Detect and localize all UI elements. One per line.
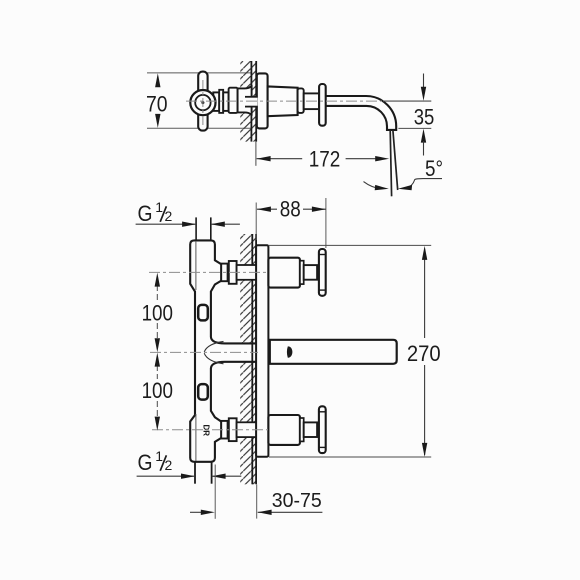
- svg-text:30-75: 30-75: [272, 489, 322, 512]
- svg-text:100: 100: [142, 300, 173, 325]
- handle hub outer circle: [190, 90, 215, 115]
- valve stem ring A (top view): [213, 92, 219, 111]
- wall hatch (top view): [240, 61, 256, 142]
- bottom valve trim sleeve: [268, 415, 300, 445]
- top valve ring B: [229, 261, 237, 284]
- bottom handle bar: [319, 406, 326, 453]
- bottom valve stem: [304, 422, 317, 437]
- svg-text:172: 172: [309, 147, 341, 172]
- svg-text:5°: 5°: [425, 156, 443, 181]
- top valve taper ring: [300, 261, 304, 284]
- svg-text:1: 1: [155, 199, 163, 215]
- dimension 100 upper: [156, 285, 158, 301]
- dimension 35 upper stem+arrow: [423, 74, 425, 89]
- spout aerator mark: [287, 346, 293, 357]
- spout neck: [304, 93, 319, 109]
- dimension 30-75 extension lines: [214, 465, 216, 519]
- G 1/2 bottom dimension line: [137, 475, 195, 477]
- top valve through-wall pipe: [237, 265, 258, 280]
- bottom valve ring A: [221, 421, 227, 439]
- spout front view: [270, 340, 397, 364]
- cross handle bar (top view): [198, 72, 207, 131]
- G 1/2 top dimension line: [136, 223, 196, 225]
- valve stem through-wall sleeve (top view): [245, 97, 258, 107]
- upper mounting slot: [198, 305, 208, 321]
- svg-text:100: 100: [142, 378, 173, 403]
- wall face line 2 (bottom view): [255, 234, 257, 484]
- top handle bar: [319, 249, 326, 296]
- wall face lines (top view): [250, 61, 252, 142]
- svg-text:88: 88: [280, 196, 301, 221]
- dimension 172 line and arrows: [257, 158, 303, 160]
- svg-text:35: 35: [414, 104, 435, 129]
- dimension 270 line and arrows: [424, 249, 426, 339]
- spout tube and elbow: [319, 96, 396, 130]
- dimension 70 extension lines: [147, 73, 251, 128]
- dimension 35 extension line: [398, 127, 431, 129]
- valve stem trumpet flange (top view): [238, 86, 252, 114]
- top valve trim sleeve: [268, 258, 300, 288]
- G 1/2 top stub extension lines: [195, 217, 197, 240]
- dimension 270 extension lines: [268, 244, 431, 246]
- svg-text:270: 270: [407, 341, 441, 366]
- spout body cone: [268, 86, 298, 116]
- top valve ring A: [221, 264, 227, 282]
- 5 degree arc right segment and leader: [406, 179, 442, 189]
- centerline horizontal (top view): [186, 100, 382, 102]
- valve stem ring C (top view): [223, 92, 228, 111]
- middle tee arch detail: [204, 341, 223, 363]
- wall hatch (bottom view): [240, 234, 256, 484]
- hub vertical centerline: [202, 80, 204, 126]
- dimension 70 arrows: [155, 73, 160, 87]
- dimension 35 lower stem+arrow: [421, 129, 426, 143]
- svg-text:1: 1: [155, 448, 163, 464]
- wall face line across middle pipe: [251, 342, 253, 362]
- valve stem ring D (top view): [229, 88, 238, 113]
- manifold body outline: [190, 240, 259, 461]
- dimension 30-75 line and arrows: [190, 511, 201, 513]
- centerline bottom valve: [152, 429, 268, 431]
- handle hub inner circle: [195, 95, 210, 110]
- spout cap ring: [298, 88, 304, 113]
- 5 degree arc left segment: [364, 182, 382, 189]
- lower mounting slot: [198, 384, 208, 400]
- svg-text:DR: DR: [201, 425, 210, 437]
- dimension 172 extension line: [255, 142, 257, 166]
- svg-text:70: 70: [146, 91, 168, 116]
- mounting plate (side view): [256, 245, 268, 456]
- centerline top valve: [149, 271, 268, 273]
- valve stem ring B (top view): [219, 90, 223, 113]
- bottom valve taper ring: [300, 418, 304, 441]
- dimension 88 extension lines: [255, 203, 257, 241]
- svg-text:G: G: [138, 201, 153, 226]
- spout flange disc: [319, 84, 326, 126]
- dimension 88 line and arrows: [257, 208, 277, 210]
- svg-text:2: 2: [165, 457, 173, 473]
- svg-text:2: 2: [165, 208, 173, 224]
- centerline 35 reference segment: [383, 100, 431, 102]
- top valve stem: [304, 265, 317, 280]
- dimension 100 lower: [156, 365, 158, 379]
- spout escutcheon (top view): [257, 73, 268, 128]
- G 1/2 bottom stub lines: [194, 461, 196, 484]
- wall face line 1 (bottom view): [251, 234, 253, 484]
- centerline middle spout: [150, 351, 258, 353]
- water stream line tilted 5deg: [393, 130, 398, 190]
- svg-text:G: G: [138, 450, 153, 475]
- bottom valve through-wall pipe: [237, 422, 258, 437]
- water stream line vertical: [390, 130, 391, 196]
- tee bore lines: [195, 241, 197, 290]
- bottom valve ring B: [229, 418, 237, 441]
